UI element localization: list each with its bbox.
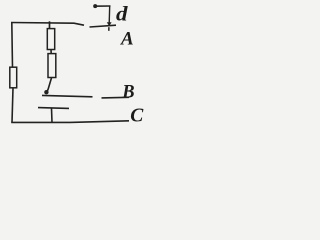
wire lower plate to bottom wire bbox=[51, 108, 54, 122]
svg-text:B: B bbox=[121, 83, 134, 103]
wire top horizontal bbox=[11, 23, 84, 26]
node dot on top movable plate bbox=[93, 4, 97, 8]
wire bottom horizontal bbox=[11, 121, 129, 123]
capacitor A top movable plate bbox=[94, 5, 111, 7]
resistor R2 middle upper bbox=[47, 29, 54, 50]
capacitor plate A bottom bbox=[90, 25, 117, 27]
resistor R3 middle lower bbox=[48, 54, 56, 78]
wire R3 down to junction dot bbox=[47, 78, 52, 93]
svg-text:C: C bbox=[130, 106, 144, 127]
dimension arrow line for gap d bbox=[108, 6, 111, 23]
capacitor upper plate / wire toward B bbox=[42, 95, 93, 96]
wire segment B bbox=[102, 96, 130, 99]
wire between R2 and R3 bbox=[50, 50, 52, 54]
node junction top wire to middle branch bbox=[49, 21, 51, 29]
capacitor lower plate bbox=[38, 107, 69, 110]
tick below plate A bbox=[108, 27, 110, 31]
svg-text:A: A bbox=[120, 29, 134, 50]
node dot at middle capacitor junction bbox=[44, 90, 48, 94]
svg-text:d: d bbox=[116, 2, 128, 26]
resistor R1 left bbox=[10, 67, 17, 88]
wire left vertical lower bbox=[12, 88, 13, 123]
wire left vertical upper bbox=[11, 22, 14, 68]
arrowhead of d dimension arrow bbox=[107, 22, 112, 26]
